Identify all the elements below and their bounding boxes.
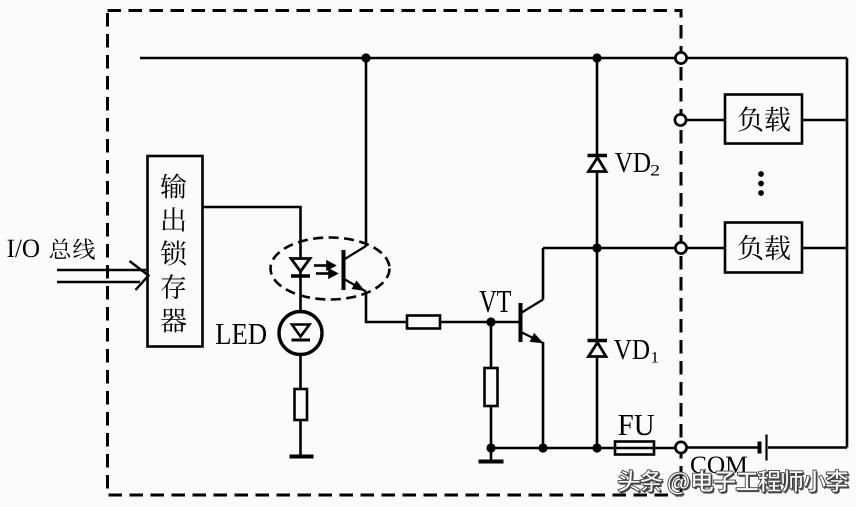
node: VT emitter junction [538, 443, 547, 452]
wire: load 2 to right bus [802, 247, 847, 250]
wire: phototransistor collector to top rail [365, 58, 368, 247]
optocoupler LED (diode pointing down) [291, 259, 310, 277]
wire: base resistor to VT base [440, 321, 519, 324]
diode VD2 [588, 156, 608, 172]
diode VD1 [588, 341, 608, 357]
indicator LED circle with diode [279, 312, 322, 355]
output latch label 输出锁存器 [161, 173, 187, 332]
wire: diode branch vertical [596, 58, 599, 448]
I/O bus label I/O 总线 [7, 238, 94, 259]
terminal: this output channel [675, 242, 686, 253]
dashed PLC enclosure boundary [108, 11, 682, 496]
optocoupler phototransistor [344, 246, 367, 292]
wire: base node down to pulldown resistor [490, 322, 493, 368]
resistor: LED current limiting [295, 389, 308, 420]
node: diode branch bottom junction [592, 443, 601, 452]
load 1 label 负载 [738, 106, 790, 131]
terminal: top supply [675, 52, 686, 63]
0V terminal bar under LED branch [290, 455, 314, 459]
fuse FU [615, 442, 654, 455]
terminal: COM [675, 442, 686, 453]
wire: latch output to optocoupler LED anode [202, 207, 301, 312]
node: optocoupler collector junction on top rail [361, 53, 370, 62]
wire: LED cathode to resistor [299, 355, 302, 390]
COM label [691, 457, 747, 474]
I/O bus arrow into latch [57, 261, 149, 290]
node: VT base junction [486, 317, 495, 326]
LED label [216, 324, 266, 344]
battery (external DC supply) [760, 435, 767, 461]
transistor VT [521, 300, 544, 344]
wire: top rail external to right bus [687, 57, 847, 60]
wire: external right bus [846, 58, 849, 448]
load 2 label 负载 [738, 235, 790, 260]
wire: COM terminal to battery [687, 446, 758, 449]
load box 2 [725, 223, 802, 273]
wire: resistor to 0V terminal bar [299, 420, 302, 455]
wire: terminal to load 1 [686, 119, 725, 122]
VT label [480, 291, 512, 312]
optocoupler light arrows [314, 262, 336, 277]
VD1 label [614, 340, 658, 363]
wire: VT emitter down to bottom rail [542, 342, 545, 448]
VD2 label [615, 153, 659, 176]
ground symbol [479, 448, 504, 462]
wire: internal bottom rail [491, 447, 676, 450]
wire: phototransistor emitter down to base resistor [366, 292, 407, 323]
resistor: VT base series [407, 316, 440, 329]
FU label [619, 415, 655, 435]
wire: load 1 to right bus [802, 119, 847, 122]
resistor: base pulldown [485, 368, 498, 406]
watermark 头条 @电子工程师小李 [618, 470, 850, 497]
wire: collector rail to output terminal [543, 247, 676, 250]
node: collector rail / diode branch junction [592, 243, 601, 252]
wire: battery to right bus [768, 446, 847, 449]
optocoupler package dashed ellipse [271, 238, 390, 300]
wire: pulldown resistor to bottom rail [490, 406, 493, 448]
load box 1 [725, 95, 802, 144]
node: pulldown/ground junction [486, 443, 495, 452]
output latch box [148, 156, 203, 347]
wire: internal top supply rail [140, 57, 676, 60]
ellipsis: more output channels [758, 171, 764, 196]
wire: terminal to load 2 [687, 247, 725, 250]
wire: VT collector up to collector rail [542, 248, 545, 300]
terminal: output channel (upper load) [675, 114, 686, 125]
node: diode branch junction on top rail [592, 53, 601, 62]
